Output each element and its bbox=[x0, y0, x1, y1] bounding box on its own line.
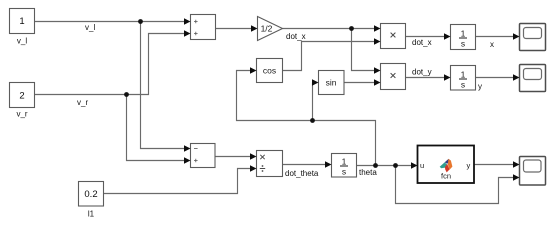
divide block (multiply and divide) bbox=[250, 151, 283, 177]
wire theta from integrator to fcn bbox=[357, 165, 413, 167]
svg-text:0.2: 0.2 bbox=[84, 189, 97, 200]
svg-text:dot_x: dot_x bbox=[286, 32, 306, 41]
wire v_l from constant 1 to sum1 bbox=[35, 21, 186, 23]
wire integrator y to scope2 bbox=[476, 77, 515, 79]
svg-text:s: s bbox=[342, 167, 346, 177]
svg-text:1/2: 1/2 bbox=[261, 24, 273, 34]
svg-text:y: y bbox=[478, 82, 482, 91]
trig block sin bbox=[312, 71, 344, 95]
label dot_x after gain bbox=[286, 32, 306, 41]
svg-text:v_r: v_r bbox=[16, 110, 27, 119]
svg-text:sin: sin bbox=[326, 78, 337, 88]
svg-text:1: 1 bbox=[19, 16, 24, 27]
wire theta branch up to cos bbox=[237, 71, 376, 166]
label x bbox=[490, 40, 494, 49]
wire product dot_y to integrator y bbox=[406, 77, 446, 79]
svg-text:s: s bbox=[461, 80, 465, 90]
label dot_x before integrator bbox=[412, 38, 432, 47]
node junction theta to scope bbox=[393, 163, 398, 168]
svg-text:s: s bbox=[461, 39, 465, 49]
svg-text:v_l: v_l bbox=[85, 23, 95, 32]
scope block theta/y (two inputs) bbox=[513, 157, 546, 186]
wire fcn output y to scope3 bbox=[475, 164, 516, 166]
svg-text:v_r: v_r bbox=[77, 98, 88, 107]
svg-text:1: 1 bbox=[342, 157, 347, 167]
svg-text:y: y bbox=[467, 161, 471, 170]
wire theta branch up to sin bbox=[312, 83, 315, 121]
label v_r on wire bbox=[77, 98, 88, 107]
wire integrator x to scope1 bbox=[476, 36, 515, 38]
svg-text:theta: theta bbox=[359, 168, 377, 177]
constant block v_r value 2 bbox=[10, 83, 35, 119]
product block dot_x (multiply) bbox=[374, 24, 406, 49]
wire divide to integrator theta bbox=[283, 164, 327, 166]
wire sum1 to gain bbox=[216, 28, 253, 30]
svg-text:x: x bbox=[490, 40, 494, 49]
integrator block theta (1/s) bbox=[325, 154, 357, 178]
svg-text:dot_x: dot_x bbox=[412, 38, 432, 47]
svg-text:1: 1 bbox=[461, 29, 466, 39]
trig block cos bbox=[250, 59, 283, 83]
label dot_y before integrator bbox=[412, 68, 432, 77]
wire constant l1 to divide input2 bbox=[104, 169, 252, 194]
scope block x bbox=[513, 24, 546, 51]
wire theta branch under fcn to scope3 bbox=[396, 166, 516, 204]
label v_l on wire bbox=[85, 23, 95, 32]
integrator block x (1/s) bbox=[444, 25, 476, 50]
node junction theta sin tap bbox=[310, 118, 315, 123]
constant block l1 value 0.2 bbox=[79, 182, 104, 219]
svg-text:dot_y: dot_y bbox=[412, 68, 432, 77]
label theta bbox=[359, 168, 377, 177]
gain block 1/2 bbox=[251, 17, 283, 41]
MATLAB logo inside fcn bbox=[440, 159, 453, 173]
label dot_theta bbox=[285, 169, 319, 178]
svg-text:l1: l1 bbox=[88, 210, 95, 219]
svg-text:fcn: fcn bbox=[441, 172, 451, 181]
node junction v_r bbox=[124, 92, 129, 97]
wire cos to product dot_x input2 bbox=[283, 42, 376, 71]
label y bbox=[478, 82, 482, 91]
wire branch v_l down to sum2 bbox=[141, 22, 186, 149]
svg-text:dot_theta: dot_theta bbox=[285, 169, 319, 178]
svg-text:cos: cos bbox=[263, 66, 276, 76]
node junction dot_x feed bbox=[349, 26, 354, 31]
wire branch v_r down to sum2 bbox=[127, 95, 186, 161]
integrator block y (1/s) bbox=[444, 66, 476, 91]
wire v_r from constant 2 up to sum1 bbox=[35, 34, 186, 95]
wire product dot_x to integrator x bbox=[406, 36, 446, 38]
wire sin to product dot_y input2 bbox=[344, 82, 375, 84]
constant block v_l value 1 bbox=[10, 9, 35, 46]
node junction v_l bbox=[138, 19, 143, 24]
wire branch dot_x feed down to product dot_y bbox=[352, 29, 376, 71]
svg-text:1: 1 bbox=[461, 70, 466, 80]
MATLAB function block fcn bbox=[411, 146, 474, 184]
svg-text:2: 2 bbox=[19, 91, 24, 102]
node junction theta bbox=[373, 163, 378, 168]
svg-text:v_l: v_l bbox=[17, 37, 27, 46]
sum block Add1 (v_l + v_r) bbox=[184, 15, 216, 40]
scope block y bbox=[513, 65, 546, 92]
wire gain to product dot_x bbox=[283, 28, 376, 30]
sum block Add2 (v_r - v_l) bbox=[184, 144, 215, 168]
wire sum2 to divide bbox=[215, 156, 252, 158]
svg-text:u: u bbox=[420, 161, 424, 170]
product block dot_y (multiply) bbox=[374, 64, 406, 90]
